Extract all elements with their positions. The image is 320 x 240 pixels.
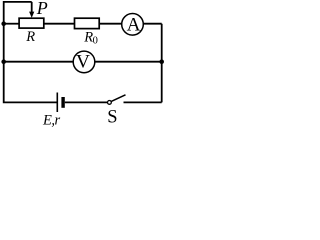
svg-text:0: 0: [93, 35, 98, 46]
svg-text:A: A: [127, 15, 141, 36]
svg-text:P: P: [36, 0, 48, 18]
svg-text:R: R: [25, 29, 35, 45]
svg-text:S: S: [107, 108, 117, 128]
svg-text:V: V: [76, 51, 90, 72]
svg-text:E,r: E,r: [42, 112, 60, 128]
